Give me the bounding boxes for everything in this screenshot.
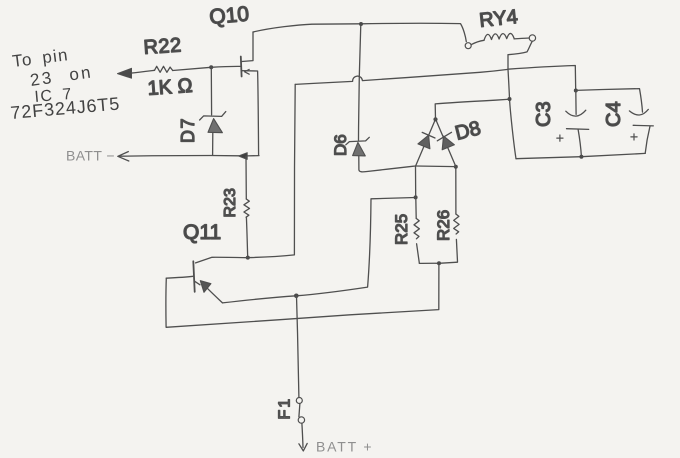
svg-text:F1: F1: [277, 397, 294, 420]
wire D7 anode: [210, 67, 212, 115]
resistor R26: [454, 167, 459, 262]
resistor R22: [130, 66, 211, 73]
wire D8 apex to box: [435, 99, 509, 119]
wire Q11 emitter rail: [223, 198, 416, 303]
node junction box left: [508, 97, 512, 101]
wire long horizontal with hop: [295, 69, 508, 84]
wire to R23: [245, 156, 247, 199]
node junction bottom rail C3: [579, 155, 583, 159]
wire Q11 collector: [196, 257, 248, 263]
wire C3 box left edge: [508, 69, 516, 159]
wire R22 to Q10 base: [211, 65, 241, 68]
svg-text:RY4: RY4: [478, 6, 519, 32]
wire R25 riser: [415, 166, 417, 197]
node junction R22/D7: [209, 65, 213, 69]
node junction emitter/F1: [294, 294, 299, 299]
svg-text:R22: R22: [143, 34, 183, 59]
resistor R25: [414, 198, 419, 263]
diode D8 left: [416, 119, 436, 165]
svg-text:R26: R26: [434, 210, 453, 241]
fuse F1: [296, 398, 304, 448]
resistor R23: [244, 199, 250, 257]
wire R25 R26 bottom: [419, 262, 457, 263]
diode D8 right: [436, 119, 456, 166]
svg-text:1K Ω: 1K Ω: [147, 75, 193, 100]
label To pin 23 on IC7: [10, 45, 121, 123]
capacitor C3: [557, 91, 589, 157]
node junction R25 top: [414, 195, 418, 199]
svg-text:R25: R25: [392, 214, 411, 245]
wire D6 branch: [359, 24, 361, 140]
transistor Q11: [166, 261, 222, 303]
wire to fuse F1: [297, 296, 299, 397]
wire box top edge: [508, 66, 576, 91]
wire collector riser: [248, 84, 295, 257]
junction arrowhead on BATT rail: [239, 153, 248, 160]
wire C3 to C4 top: [576, 89, 643, 113]
svg-text:C4: C4: [603, 101, 625, 127]
arrow BATT plus: [299, 443, 307, 451]
node junction top rail D6: [359, 22, 363, 26]
wire bottom rail C3 C4: [516, 153, 645, 158]
svg-text:R23: R23: [222, 188, 239, 217]
transistor Q10: [241, 32, 259, 155]
svg-text:D7: D7: [178, 117, 198, 143]
svg-text:Q10: Q10: [208, 3, 250, 29]
svg-text:Q11: Q11: [183, 221, 221, 244]
svg-text:BATT +: BATT +: [316, 439, 373, 455]
capacitor C4: [629, 109, 653, 153]
wire Q11 base loop: [166, 263, 439, 327]
arrow to pin 23: [118, 68, 132, 78]
wire top rail from Q10 collector to RY4: [253, 23, 466, 41]
zener diode D7: [200, 112, 226, 156]
svg-text:BATT −: BATT −: [66, 148, 115, 164]
node junction bottom center: [437, 261, 441, 265]
node junction C3 top: [574, 89, 578, 93]
svg-text:C3: C3: [533, 101, 555, 127]
node junction D8 apex: [433, 117, 437, 121]
relay RY4: [465, 33, 535, 69]
zener diode D6: [346, 137, 416, 172]
node junction R26 top: [454, 165, 458, 169]
wire top horizontal R25 R26: [416, 165, 456, 168]
wire BATT minus rail: [120, 154, 260, 157]
node junction R23/collector: [246, 256, 250, 260]
svg-text:D6: D6: [331, 134, 350, 156]
arrow BATT minus: [118, 152, 129, 161]
